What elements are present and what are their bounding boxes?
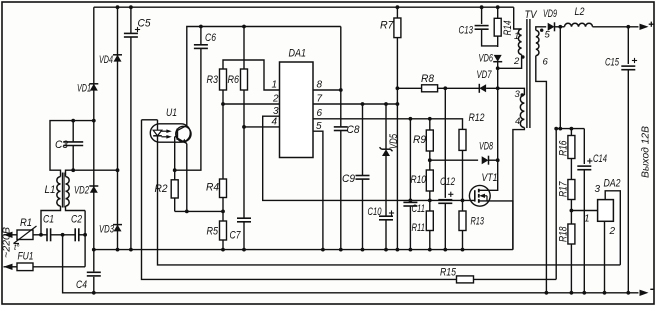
label minus output: [650, 288, 654, 290]
wire FU1 riser: [84, 211, 86, 267]
node C3 top: [71, 119, 75, 123]
resistor R5: [220, 221, 227, 240]
capacitor C15 electrolytic: [627, 27, 629, 64]
wire T1 pin3 lead: [498, 88, 525, 95]
zener VD5: [385, 104, 387, 149]
U1 light arrows: [166, 129, 171, 133]
aux polarity dot: [521, 93, 524, 96]
thermistor R1: [17, 230, 33, 240]
secondary polarity dot: [540, 29, 543, 32]
wire R3 bottom to R4: [222, 90, 224, 179]
capacitor C4: [93, 250, 95, 272]
resistor R4: [220, 179, 227, 198]
plus C15: [632, 60, 637, 62]
wire output minus line: [63, 235, 639, 293]
wire L1 right top lead to VD3/VD4 node: [66, 170, 118, 176]
svg-text:R3: R3: [207, 74, 219, 86]
node R7 top: [396, 5, 400, 9]
svg-text:R7: R7: [380, 20, 394, 32]
diode VD7: [478, 84, 480, 93]
VT1 drain lead: [479, 160, 498, 190]
node emitter-R2 line: [185, 210, 189, 214]
wire base node to C6: [175, 48, 201, 170]
svg-text:VD4: VD4: [99, 54, 113, 66]
capacitor C1: [46, 228, 48, 241]
node pin6 R9: [428, 117, 432, 121]
node anode column top: [554, 127, 558, 131]
svg-text:3: 3: [273, 106, 279, 117]
svg-text:FU1: FU1: [18, 251, 34, 263]
wire L1 right bottom lead: [66, 206, 86, 211]
IC DA2 box: [598, 200, 614, 222]
wire DA2 anode lead: [604, 221, 606, 292]
capacitor C14 electrolytic: [583, 129, 585, 164]
wire R2 bottom line: [175, 210, 223, 212]
svg-text:DA2: DA2: [604, 178, 621, 190]
plus C14: [587, 160, 592, 162]
wire pin7 line: [313, 103, 397, 105]
wire R10 bottom: [429, 191, 431, 211]
input terminal arrow upper: [4, 232, 13, 238]
svg-text:VD8: VD8: [479, 141, 494, 153]
optocoupler U1 body: [150, 124, 190, 142]
wire VD8 line: [430, 159, 478, 161]
node R5 rail: [221, 248, 225, 252]
svg-text:C1: C1: [43, 214, 54, 226]
wire U1 collector up: [187, 27, 341, 126]
node C11 rail: [409, 248, 413, 252]
wire pin2 lead: [223, 103, 280, 105]
wire R12 bottom to gate: [462, 150, 464, 200]
svg-text:C14: C14: [593, 153, 607, 165]
capacitor C7: [237, 217, 251, 219]
U1 LED: [157, 120, 159, 130]
wire R6 top: [243, 27, 245, 70]
wire stub to R12: [445, 119, 462, 130]
diode VD9: [554, 22, 556, 31]
node VD5 top: [384, 102, 388, 106]
node VD9 tap line: [558, 127, 562, 131]
node C6 top: [199, 25, 203, 29]
node bridge left mid: [92, 119, 96, 123]
capacitor C12 electrolytic: [438, 199, 452, 201]
wire T1 pin4 lead: [513, 128, 525, 250]
diode VD1: [89, 83, 98, 85]
wire VD4-VD3 column: [117, 7, 119, 249]
capacitor C11: [403, 201, 417, 203]
svg-text:R11: R11: [412, 222, 426, 234]
svg-text:5: 5: [545, 30, 551, 41]
node R18 minus line: [570, 291, 574, 295]
wire R16 node line: [556, 128, 584, 130]
node R13 rail: [461, 248, 465, 252]
node R16 top: [570, 127, 574, 131]
node rail start: [92, 248, 96, 252]
wire R18 bottom: [570, 244, 572, 293]
output terminal arrow plus: [640, 24, 649, 30]
node R4-R5: [221, 210, 225, 214]
primary polarity dot: [521, 55, 524, 58]
svg-text:6: 6: [317, 108, 323, 119]
svg-text:C13: C13: [459, 25, 474, 37]
node R3-R4 pin2 tap: [221, 102, 225, 106]
svg-text:VD1: VD1: [77, 83, 91, 95]
wire C1 to C2: [51, 234, 76, 236]
output terminal arrow minus: [640, 290, 649, 296]
wire R6 bottom to pin4 node: [243, 90, 245, 218]
wire primary ground rail: [94, 249, 513, 251]
wire L1 left top lead: [50, 121, 94, 177]
svg-text:L1: L1: [45, 184, 56, 196]
IC DA1 box: [280, 62, 314, 158]
plus C10: [389, 212, 394, 214]
wire R8 to pin6 line and C12: [444, 88, 446, 198]
wire pin6 line: [313, 118, 445, 120]
svg-text:3: 3: [515, 89, 521, 100]
svg-text:2: 2: [513, 56, 520, 67]
svg-text:6: 6: [543, 57, 549, 68]
svg-text:1: 1: [584, 214, 590, 225]
wire pin8 lead: [313, 89, 341, 91]
node pin4-R6-C7: [242, 125, 246, 129]
node R17-R18 ref: [570, 209, 574, 213]
node base-R2: [173, 168, 177, 172]
wire R4 bottom: [222, 198, 224, 222]
diode VD3: [113, 224, 122, 226]
node VD4 top: [116, 5, 120, 9]
node C9 rail: [361, 248, 365, 252]
svg-text:C10: C10: [368, 206, 383, 218]
svg-text:R15: R15: [440, 267, 457, 279]
wire DA2 ref lead: [571, 210, 597, 212]
node C9 top: [361, 102, 365, 106]
svg-text:R14: R14: [502, 21, 514, 36]
U1 phototransistor: [176, 126, 191, 141]
svg-text:VD6: VD6: [479, 53, 494, 65]
wire R3 top to pin1: [223, 60, 280, 90]
resistor R17: [568, 180, 575, 200]
svg-text:5: 5: [316, 121, 322, 132]
diode VD2: [89, 185, 98, 187]
svg-text:C5: C5: [138, 18, 152, 30]
wire C11 column: [409, 119, 411, 203]
resistor R18: [568, 224, 575, 244]
node C12 rail: [443, 248, 447, 252]
label plus output: [649, 23, 654, 25]
resistor R16: [570, 129, 572, 136]
svg-text:R9: R9: [413, 134, 426, 146]
choke L1 core: [61, 173, 63, 208]
svg-text:VD3: VD3: [99, 224, 115, 236]
svg-text:VD2: VD2: [74, 185, 89, 197]
wire C2 to FU1 riser: [79, 234, 85, 236]
node VD9 out: [558, 25, 562, 29]
VT1 substrate arrow: [479, 194, 485, 198]
svg-text:R4: R4: [206, 182, 219, 194]
svg-text:VD5: VD5: [388, 133, 400, 149]
node R9-R10 VD8 line: [428, 158, 432, 162]
capacitor C13: [481, 7, 483, 24]
transformer secondary winding 5-6: [536, 30, 539, 55]
svg-text:L2: L2: [575, 6, 585, 18]
node C5 top: [129, 5, 133, 9]
wire +HV top rail: [94, 6, 514, 8]
node pin6-C11 tap: [409, 117, 413, 121]
svg-text:2: 2: [272, 94, 279, 105]
svg-text:R2: R2: [155, 183, 168, 195]
fuse FU1: [4, 266, 18, 268]
node C15 top: [626, 25, 630, 29]
svg-text:R8: R8: [421, 73, 435, 85]
node pin6 minus line: [545, 291, 549, 295]
svg-text:C3: C3: [55, 139, 69, 151]
wire R11 bottom: [429, 231, 431, 250]
node C13 top: [480, 5, 484, 9]
transistor VT1 MOSFET: [469, 185, 490, 206]
node pin8: [339, 88, 343, 92]
svg-text:~220В: ~220В: [1, 227, 13, 258]
wire feedback cathode line: [158, 145, 621, 265]
node R8 right: [443, 86, 447, 90]
resistor R3: [220, 69, 227, 90]
svg-text:C4: C4: [76, 279, 87, 291]
resistor R15: [457, 276, 474, 283]
node VD8 drain: [496, 158, 500, 162]
resistor R11: [426, 211, 433, 231]
resistor R10: [426, 170, 433, 191]
resistor R14: [497, 7, 499, 18]
svg-text:C8: C8: [347, 124, 361, 136]
svg-text:4: 4: [515, 116, 520, 127]
wire R1 to C1: [33, 234, 48, 236]
node C15 bottom: [626, 291, 630, 295]
wire anode column: [555, 129, 557, 280]
node R6 top: [242, 25, 246, 29]
wire pin3 lead to gate line: [263, 116, 475, 200]
wire R17-R18: [570, 200, 572, 225]
svg-text:R12: R12: [469, 112, 485, 124]
wire VD1-VD2 column: [93, 7, 95, 249]
VT1 source lead: [479, 201, 513, 250]
svg-text:U1: U1: [166, 107, 177, 119]
choke L1 right winding: [66, 177, 70, 206]
wire T1 pin5 lead: [536, 27, 546, 31]
node R7 pin7: [396, 102, 400, 106]
svg-text:DA1: DA1: [289, 48, 307, 60]
capacitor C8: [334, 126, 348, 128]
resistor R2: [174, 170, 176, 180]
transformer TV primary winding: [518, 29, 521, 55]
wire R9-R10: [429, 151, 431, 170]
wire top rail to T1 pin1: [514, 7, 522, 29]
node VD7 pin3 junction: [496, 86, 500, 90]
svg-text:C12: C12: [440, 176, 455, 188]
capacitor C10 electrolytic: [379, 215, 393, 217]
svg-text:C11: C11: [412, 203, 426, 215]
node C10 rail: [384, 248, 388, 252]
svg-text:R1: R1: [20, 217, 32, 229]
node R7 rail: [396, 248, 400, 252]
resistor R9: [429, 119, 431, 130]
node C14 minus line: [582, 291, 586, 295]
svg-text:7: 7: [317, 94, 323, 105]
capacitor C3: [72, 121, 74, 142]
node R12 gate line: [461, 199, 465, 203]
svg-text:VD9: VD9: [543, 8, 557, 20]
wire pin4 lead: [244, 126, 280, 128]
resistor R13: [462, 200, 464, 211]
wire DA2 cathode lead: [605, 191, 620, 265]
transformer core: [526, 19, 528, 128]
svg-text:Выход 12В: Выход 12В: [640, 126, 652, 178]
wire pin2-VD7-drain column: [497, 68, 499, 160]
node R7-R8: [396, 86, 400, 90]
transformer aux winding 3-4: [520, 95, 524, 128]
node C3 bottom: [71, 168, 75, 172]
wire R16-R17: [570, 159, 572, 180]
resistor R7: [396, 7, 398, 18]
wire pin5 to ground: [313, 131, 323, 249]
plus C12: [448, 193, 453, 195]
inductor L2: [565, 23, 593, 26]
svg-text:R13: R13: [471, 216, 485, 228]
wire T1 pin6 to output minus: [536, 56, 547, 293]
input terminal arrow lower: [4, 264, 13, 270]
wire VD9 tap down: [559, 27, 561, 129]
capacitor C6: [194, 44, 208, 46]
wire T1 pin2 lead: [498, 55, 522, 69]
node C4 bottom: [92, 291, 96, 295]
wire C8 column: [340, 27, 342, 127]
node R11 rail: [428, 248, 432, 252]
node R10-R11 gate line: [428, 199, 432, 203]
wire U1 anode lead: [142, 119, 158, 121]
node R1-L1 junction: [39, 233, 43, 237]
choke L1 left winding: [57, 177, 61, 206]
node C1-C2 midpoint: [61, 233, 65, 237]
svg-text:VD7: VD7: [477, 69, 493, 81]
node C5 bottom: [129, 248, 133, 252]
svg-text:R5: R5: [207, 226, 219, 238]
wire LED anode / R15 line: [142, 120, 557, 280]
node R14 top: [496, 5, 500, 9]
wire L1 left bottom lead: [41, 206, 61, 235]
capacitor C5 electrolytic: [130, 7, 132, 33]
resistor R6: [241, 69, 248, 90]
svg-text:R16: R16: [558, 140, 570, 156]
resistor R8: [397, 87, 421, 89]
diode VD8: [488, 156, 490, 165]
svg-text:C9: C9: [342, 173, 355, 185]
svg-text:R10: R10: [411, 174, 427, 186]
node C2 right: [83, 233, 87, 237]
svg-text:R6: R6: [228, 74, 240, 86]
node DA2 anode minus line: [603, 291, 607, 295]
svg-text:VT1: VT1: [482, 172, 498, 184]
diode VD4: [113, 54, 122, 56]
svg-text:C6: C6: [205, 32, 217, 44]
wire U1 emitter down: [186, 144, 188, 212]
node pin5 rail: [321, 248, 325, 252]
capacitor C9: [362, 104, 364, 176]
resistor R12: [459, 129, 466, 150]
svg-text:C15: C15: [605, 57, 620, 69]
svg-text:C7: C7: [230, 230, 242, 242]
svg-text:3: 3: [595, 184, 601, 195]
node VD3 bottom: [116, 248, 120, 252]
node VD4-VD3 mid: [116, 168, 120, 172]
node C8 rail: [339, 248, 343, 252]
svg-text:8: 8: [317, 80, 323, 91]
svg-text:C2: C2: [71, 214, 82, 226]
svg-text:4: 4: [272, 117, 278, 128]
svg-text:R18: R18: [558, 226, 570, 242]
capacitor C2: [74, 228, 76, 241]
node C7 rail: [242, 248, 246, 252]
diode VD6: [493, 61, 502, 63]
node gate line C11: [409, 199, 413, 203]
plus C5: [135, 29, 140, 31]
svg-text:2: 2: [609, 226, 616, 237]
wire U1 base down: [174, 137, 176, 171]
wire L2 to output plus: [593, 26, 639, 28]
node VD6 pin2: [496, 66, 500, 70]
wire R5 bottom: [222, 240, 224, 250]
svg-text:1: 1: [272, 80, 278, 91]
svg-text:R17: R17: [558, 181, 570, 197]
